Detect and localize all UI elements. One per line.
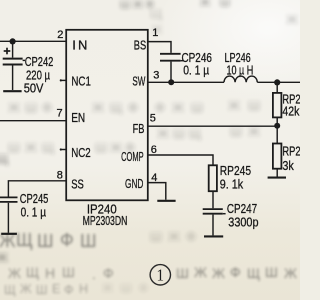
- wire RP245 to CP247: [212, 191, 214, 208]
- capacitor CP247: [203, 209, 223, 214]
- svg-text:Ж: Ж: [20, 282, 32, 296]
- svg-text:ШЖФ: ШЖФ: [120, 0, 154, 11]
- wire CP245 to ground: [7, 203, 9, 233]
- wire FB node to RP247: [276, 126, 278, 143]
- svg-text:NC2: NC2: [71, 145, 91, 160]
- svg-text:Щ: Щ: [247, 265, 260, 281]
- svg-text:Ж: Ж: [284, 265, 297, 281]
- svg-text:Щ: Щ: [26, 264, 39, 280]
- svg-text:0. 1 µ: 0. 1 µ: [21, 205, 46, 219]
- wire SS: [8, 181, 66, 197]
- capacitor CP246: [160, 54, 181, 61]
- figure number circle 1: [150, 265, 170, 285]
- svg-text:6: 6: [151, 144, 157, 156]
- svg-text:Ш: Ш: [80, 231, 97, 251]
- wire COMP: [148, 155, 213, 165]
- svg-text:Ш: Ш: [62, 264, 75, 280]
- svg-text:CP242: CP242: [25, 55, 54, 69]
- svg-text:8: 8: [57, 169, 63, 181]
- capacitor CP242 polarity +: [4, 48, 11, 55]
- label leader CP247: [223, 213, 226, 215]
- resistor RP247 3k: [273, 144, 282, 169]
- svg-text:Е: Е: [52, 282, 60, 296]
- svg-text:FB: FB: [133, 121, 145, 136]
- node input junction: [10, 38, 16, 44]
- svg-text:Ш: Ш: [36, 283, 47, 297]
- svg-text:EN: EN: [71, 110, 85, 125]
- svg-text:Н: Н: [45, 265, 55, 281]
- svg-text:ЖШФ: ЖШФ: [8, 100, 52, 115]
- svg-text:BS: BS: [134, 38, 147, 53]
- svg-text:Щ: Щ: [16, 230, 33, 250]
- wire RP247 to ground: [276, 169, 278, 177]
- svg-text:220 µ: 220 µ: [26, 68, 50, 82]
- wire BS to CP246: [148, 42, 171, 53]
- svg-text:Ф: Ф: [103, 265, 114, 281]
- op-amp U1 IC body IP240 MP2303DN: [66, 30, 148, 201]
- svg-text:Н: Н: [79, 282, 88, 296]
- capacitor CP245: [0, 197, 18, 202]
- svg-text:ЖШ: ЖШ: [200, 0, 230, 9]
- inductor LP246: [224, 76, 257, 82]
- svg-text:5: 5: [150, 112, 156, 124]
- wire output to RP246: [276, 82, 278, 93]
- svg-text:9. 1k: 9. 1k: [220, 177, 244, 191]
- svg-text:Ж: Ж: [212, 265, 225, 281]
- ground (CP247): [204, 235, 223, 237]
- resistor RP246 42k: [273, 93, 282, 118]
- svg-text:3k: 3k: [282, 159, 294, 173]
- wire CP242 branch: [12, 41, 14, 57]
- svg-text:3300p: 3300p: [228, 215, 258, 229]
- node SW/CP246 junction: [168, 79, 174, 85]
- svg-text:2: 2: [57, 29, 63, 41]
- pin NC1 stub: [60, 79, 66, 81]
- svg-text:Ш: Ш: [176, 265, 189, 281]
- svg-text:CP245: CP245: [20, 192, 49, 206]
- svg-text:ЖЩФ: ЖЩФ: [92, 100, 138, 115]
- ground (GND pin): [157, 200, 175, 202]
- svg-text:Щ: Щ: [0, 151, 8, 166]
- svg-text:CP247: CP247: [227, 202, 257, 216]
- svg-text:SS: SS: [71, 177, 84, 192]
- svg-text:Ф: Ф: [230, 264, 241, 280]
- wire CP247 to ground: [212, 215, 214, 236]
- svg-text:ШЖФ: ШЖФ: [150, 229, 196, 244]
- svg-text:7: 7: [57, 108, 63, 120]
- svg-text:0. 1 µ: 0. 1 µ: [183, 64, 209, 78]
- svg-text:ФЖШ: ФЖШ: [155, 100, 203, 115]
- svg-text:4: 4: [151, 172, 157, 184]
- svg-text:RP245: RP245: [220, 164, 251, 178]
- svg-text:GND: GND: [125, 176, 143, 191]
- wire FB: [148, 125, 277, 127]
- svg-text:.: .: [92, 266, 96, 282]
- wire CP246 to SW: [170, 62, 172, 83]
- svg-text:Ж: Ж: [286, 12, 298, 27]
- node FB junction: [274, 123, 280, 129]
- wire GND pin: [148, 183, 166, 200]
- svg-text:Ж: Ж: [0, 250, 8, 265]
- svg-text:1: 1: [157, 266, 165, 285]
- svg-text:ЖШЩ: ЖШЩ: [157, 126, 201, 141]
- resistor RP245 9.1k: [209, 165, 217, 191]
- svg-text:IN: IN: [72, 38, 87, 53]
- svg-text:NC1: NC1: [71, 73, 91, 88]
- wire IN input rail: [0, 40, 66, 42]
- pin NC2 stub: [60, 148, 66, 150]
- svg-text:SW: SW: [132, 73, 145, 88]
- svg-text:RP247: RP247: [282, 145, 300, 159]
- ground (CP245): [1, 233, 17, 235]
- wire SW: [148, 81, 224, 83]
- svg-text:Ш: Ш: [265, 264, 278, 280]
- label leader CP242: [23, 59, 25, 61]
- svg-text:50V: 50V: [24, 82, 44, 96]
- svg-text:Ф: Ф: [60, 230, 74, 250]
- wire SW output: [257, 81, 300, 83]
- svg-text:3: 3: [153, 69, 159, 81]
- svg-text:42k: 42k: [282, 105, 300, 119]
- ground (CP242): [3, 90, 21, 92]
- svg-text:ШЖЩ: ШЖЩ: [8, 140, 54, 155]
- svg-text:Ж: Ж: [194, 264, 207, 280]
- svg-text:Ф: Ф: [64, 283, 74, 297]
- wire RP246 to FB node: [276, 117, 278, 126]
- svg-text:10 µ H: 10 µ H: [227, 64, 254, 78]
- ground (RP247): [268, 177, 286, 179]
- wire EN: [0, 120, 66, 122]
- svg-text:ЖШФ: ЖШФ: [102, 281, 148, 295]
- svg-text:Щ: Щ: [4, 283, 16, 297]
- svg-text:Ш: Ш: [37, 231, 54, 251]
- svg-text:Ж: Ж: [8, 265, 21, 281]
- svg-text:MP2303DN: MP2303DN: [83, 213, 128, 228]
- wire CP242 to ground: [12, 65, 14, 90]
- svg-text:1: 1: [152, 27, 158, 39]
- node output junction: [274, 79, 280, 85]
- label leader CP246: [181, 60, 183, 62]
- capacitor CP242: [3, 59, 23, 65]
- svg-text:ЖШ: ЖШ: [228, 98, 260, 113]
- svg-text:COMP: COMP: [121, 149, 144, 164]
